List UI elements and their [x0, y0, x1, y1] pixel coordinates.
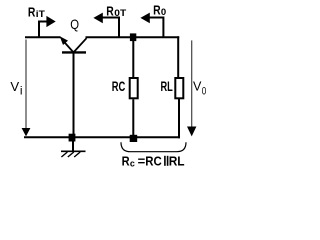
node: junction bottom base — [69, 134, 76, 142]
svg-text:RL: RL — [161, 79, 173, 94]
svg-text:0: 0 — [161, 7, 166, 17]
wire: RL bottom — [178, 98, 180, 138]
wire: RC bottom — [132, 99, 134, 137]
node: junction top (collector node to RC) — [130, 33, 136, 41]
svg-text:R: R — [106, 4, 114, 19]
voltage arrow V0 — [187, 40, 196, 136]
svg-text:RC: RC — [112, 79, 126, 94]
svg-text:c: c — [130, 159, 135, 170]
arrow R0T (output resistance of transistor, looking left) — [93, 13, 119, 37]
label Vi — [10, 80, 22, 97]
wire: RL drop from top rail corner — [177, 36, 179, 78]
wire: RC top — [132, 38, 134, 78]
node: junction bottom RC — [130, 135, 138, 142]
base bar — [62, 51, 86, 53]
wire: top rail left segment (input to emitter) — [25, 36, 61, 38]
transistor Q — [60, 36, 87, 137]
label R0 — [153, 2, 166, 17]
base lead wire down — [73, 52, 75, 137]
arrow R0 (total output resistance, looking left) — [140, 13, 163, 37]
resistor RC — [130, 78, 138, 98]
svg-text:R: R — [153, 2, 161, 17]
svg-text:Q: Q — [70, 16, 79, 32]
svg-text:RL: RL — [169, 154, 185, 169]
formula Rc = RC||RL — [122, 154, 185, 170]
resistor RL — [175, 78, 183, 98]
svg-text:i: i — [20, 84, 23, 98]
svg-text:0: 0 — [202, 86, 207, 98]
label V0 — [193, 80, 206, 98]
svg-text:V: V — [193, 80, 202, 94]
svg-text:R: R — [28, 5, 36, 20]
voltage arrow Vi — [22, 40, 31, 137]
brace under RC and RL — [121, 142, 186, 151]
label RiT — [28, 5, 46, 20]
svg-text:RC: RC — [145, 154, 162, 169]
svg-text:R: R — [122, 154, 131, 169]
label R0T — [106, 4, 127, 19]
svg-text:0T: 0T — [114, 8, 126, 18]
emitter diagonal with arrow (NPN, pointing out) — [64, 42, 73, 52]
arrow RiT (input resistance looking right) — [39, 16, 56, 37]
ground — [61, 138, 86, 157]
svg-text:iT: iT — [36, 9, 46, 19]
collector diagonal — [74, 38, 87, 52]
wire: top rail right segment (collector to RL corner) — [86, 36, 180, 38]
wire: bottom rail (ground rail) — [24, 136, 180, 138]
svg-text:V: V — [10, 80, 19, 94]
